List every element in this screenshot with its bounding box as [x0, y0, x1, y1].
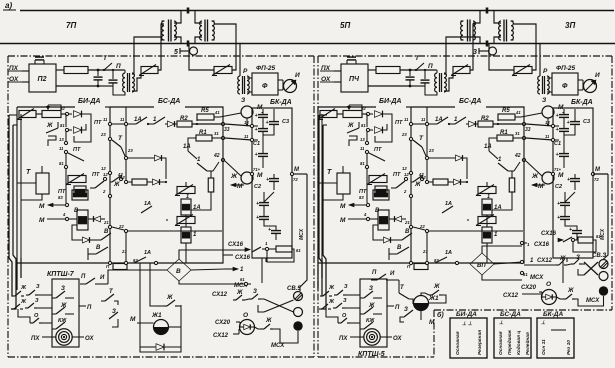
bus vertical 1 — [410, 107, 412, 263]
svg-text:11: 11 — [360, 146, 365, 151]
wire 31 to BK-DA 11 — [225, 138, 252, 140]
svg-text:1А: 1А — [183, 144, 191, 150]
svg-text:ОХ: ОХ — [85, 336, 95, 342]
svg-text:12: 12 — [103, 172, 108, 177]
svg-text:12: 12 — [101, 166, 106, 171]
diode 2 — [69, 129, 72, 131]
svg-text:ПТ: ПТ — [73, 147, 81, 153]
svg-text:33: 33 — [525, 127, 531, 133]
diode — [370, 113, 373, 115]
wire 33 to BK-DA 13 — [526, 124, 553, 126]
terminal wires — [254, 125, 258, 127]
svg-text:11: 11 — [244, 134, 249, 139]
transformer core — [204, 20, 206, 42]
coupling transformer left secondary — [174, 21, 176, 40]
svg-text:72: 72 — [293, 177, 298, 182]
svg-text:П2: П2 — [38, 76, 47, 83]
wire R1 left — [489, 138, 497, 145]
svg-text:Р: Р — [543, 68, 548, 75]
polarity tick top — [187, 8, 190, 14]
wire — [368, 85, 410, 87]
svg-text:Ж: Ж — [414, 182, 421, 188]
svg-text:Основная: Основная — [498, 331, 504, 355]
contact PT mid — [404, 177, 407, 180]
svg-text:ФП-25: ФП-25 — [256, 65, 276, 72]
varistor — [320, 111, 337, 118]
svg-text:Ж: Ж — [113, 182, 120, 188]
capacitor on box — [34, 60, 36, 64]
svg-text:БИ-ДА: БИ-ДА — [379, 98, 401, 105]
svg-text:Ж: Ж — [20, 285, 27, 291]
wire — [467, 219, 469, 221]
loop under resistor right — [573, 240, 596, 252]
capacitor — [97, 70, 99, 76]
relay box PT2 — [72, 190, 88, 200]
svg-text:М: М — [130, 316, 136, 323]
terminal wires — [555, 125, 559, 127]
varistor B — [478, 217, 496, 224]
svg-text:З: З — [36, 284, 40, 290]
svg-text:ПЧ: ПЧ — [349, 76, 360, 83]
svg-text:11: 11 — [421, 117, 426, 122]
coupling transformer left secondary — [473, 21, 475, 40]
svg-text:92: 92 — [361, 106, 366, 111]
svg-text:М: М — [558, 172, 564, 179]
wire — [400, 69, 436, 71]
svg-text:П: П — [81, 274, 86, 280]
varistor A — [177, 187, 195, 194]
svg-text:В: В — [96, 245, 101, 251]
wire — [214, 24, 236, 70]
transformer P core — [439, 73, 441, 92]
svg-text:ОХ: ОХ — [393, 336, 403, 342]
svg-text:БС-ДА: БС-ДА — [158, 98, 180, 105]
svg-text:23: 23 — [401, 132, 407, 137]
wire down to R — [239, 44, 241, 77]
svg-text:33: 33 — [224, 127, 230, 133]
svg-text:Ф: Ф — [262, 83, 268, 90]
BS-DA right edge — [222, 112, 224, 241]
crossing wires right — [584, 262, 598, 275]
bus vertical 1 — [109, 107, 111, 263]
wire 41 to relay Z — [220, 113, 241, 117]
relay box V — [378, 210, 389, 230]
transmitter КПТШ-5 box — [360, 279, 387, 347]
svg-text:Ж: Ж — [230, 173, 238, 180]
relay box 1A — [482, 199, 492, 215]
svg-text:13: 13 — [59, 137, 64, 142]
svg-text:КПТШ-7: КПТШ-7 — [47, 271, 75, 278]
loop under resistor — [267, 249, 294, 262]
left block boundary — [8, 55, 314, 57]
diamond V — [167, 259, 191, 281]
svg-text:12: 12 — [402, 166, 407, 171]
svg-text:М: М — [538, 183, 544, 190]
varistor — [514, 67, 532, 74]
coupling transformer right secondary — [200, 21, 202, 40]
wire — [578, 79, 583, 81]
relay box PT — [375, 186, 387, 196]
crossing wires — [264, 299, 294, 312]
svg-text:1А: 1А — [144, 201, 151, 207]
coupling transformer right winding — [511, 21, 513, 40]
svg-text:СХ20: СХ20 — [215, 320, 231, 326]
wire down to R — [539, 44, 541, 77]
svg-text:81: 81 — [361, 123, 366, 128]
svg-text:СХ16: СХ16 — [235, 255, 251, 261]
svg-text:23: 23 — [428, 148, 434, 153]
wire 22 down — [125, 233, 127, 263]
svg-text:М: М — [429, 319, 435, 326]
power box ПЧ — [334, 70, 341, 72]
svg-text:О: О — [243, 312, 248, 319]
svg-text:Ж: Ж — [328, 299, 335, 305]
svg-text:71+: 71+ — [554, 167, 562, 172]
svg-text:МСХ: МСХ — [586, 298, 600, 304]
wire — [166, 219, 168, 221]
svg-text:З: З — [344, 284, 348, 290]
svg-text:Резервная: Резервная — [477, 330, 483, 355]
svg-text:МСХ: МСХ — [600, 228, 606, 240]
riser stubs bottom right — [317, 263, 319, 290]
bottom wire of BI-DA — [318, 262, 367, 264]
capacitor on box — [346, 60, 348, 64]
wire — [247, 77, 252, 79]
svg-text:М: М — [257, 172, 263, 179]
svg-text:11: 11 — [404, 117, 409, 122]
svg-text:И: И — [390, 271, 395, 277]
svg-text:1А: 1А — [445, 250, 452, 256]
svg-text:М: М — [39, 203, 45, 210]
svg-text:М: М — [39, 217, 45, 224]
svg-text:Передаюж: Передаюж — [507, 330, 513, 355]
svg-text:72: 72 — [594, 177, 599, 182]
svg-text:41: 41 — [515, 110, 521, 115]
svg-text:31: 31 — [515, 131, 520, 136]
svg-text:МСХ: МСХ — [271, 343, 285, 349]
diode — [168, 121, 175, 127]
wire — [547, 77, 552, 79]
bus vertical 2 — [426, 107, 428, 182]
riser wire A — [132, 37, 162, 74]
terminals on bottom edge — [108, 261, 111, 264]
diode — [469, 121, 476, 127]
svg-text:71+: 71+ — [253, 167, 261, 172]
block BK-DA box — [553, 108, 593, 258]
varistor — [19, 111, 36, 118]
svg-text:Ж: Ж — [567, 288, 574, 294]
svg-text:83: 83 — [359, 195, 364, 200]
svg-text:СХ12: СХ12 — [537, 258, 553, 264]
diode mid — [456, 155, 463, 161]
wire 33 to BK-DA 13 — [225, 124, 252, 126]
transformer R primary — [238, 76, 240, 94]
svg-text:БИ-ДА: БИ-ДА — [78, 98, 100, 105]
svg-text:МСХ: МСХ — [530, 275, 544, 281]
inner wire left — [20, 114, 22, 258]
bottom of BS-DA — [66, 241, 223, 263]
svg-text:б): б) — [437, 311, 444, 319]
svg-text:БС-ДА: БС-ДА — [459, 98, 481, 105]
svg-text:42: 42 — [213, 153, 220, 159]
svg-text:3: 3 — [473, 49, 477, 56]
svg-text:Ж: Ж — [347, 123, 354, 129]
BS-DA right edge — [523, 112, 525, 241]
relay box PT — [74, 186, 86, 196]
diode mid — [155, 155, 162, 161]
svg-text:41: 41 — [214, 110, 220, 115]
wire 42 to relay Zh — [526, 161, 542, 176]
relay box 1 — [482, 227, 492, 243]
vertical resistor — [208, 178, 214, 192]
svg-text:21: 21 — [103, 220, 109, 225]
svg-text:СХ16: СХ16 — [541, 231, 557, 237]
motor in box — [56, 329, 72, 345]
resistor low — [433, 179, 448, 185]
svg-text:З: З — [404, 307, 408, 313]
wire terminals column — [65, 114, 67, 127]
svg-text:Ж: Ж — [46, 123, 53, 129]
svg-text:23: 23 — [100, 132, 106, 137]
bus below box — [562, 258, 564, 283]
relay box PT2 — [373, 190, 389, 200]
svg-text:13: 13 — [244, 120, 249, 125]
link wires between transformers — [174, 11, 181, 24]
riser wire B — [132, 73, 141, 91]
svg-text:11: 11 — [59, 146, 64, 151]
svg-text:81: 81 — [360, 161, 365, 166]
svg-text:81: 81 — [60, 123, 65, 128]
svg-text:11: 11 — [545, 134, 550, 139]
svg-text:82: 82 — [434, 258, 439, 263]
resistor — [376, 67, 400, 74]
relay Z bottom stub — [547, 118, 549, 125]
transformer core — [467, 20, 469, 42]
svg-text:СХ16: СХ16 — [228, 242, 244, 248]
wire — [56, 69, 64, 71]
wire riser 2 — [11, 125, 16, 309]
diamond VP — [470, 253, 494, 275]
svg-text:М: М — [340, 217, 346, 224]
transformer P primary — [123, 73, 125, 92]
capacitor 2 — [112, 73, 114, 79]
wire — [88, 69, 124, 71]
svg-text:БК-ДА: БК-ДА — [571, 99, 593, 106]
terminal 31 — [221, 136, 224, 139]
svg-text:ПТ: ПТ — [92, 172, 100, 178]
svg-text:С3: С3 — [583, 119, 590, 125]
capacitor 2 — [424, 73, 426, 79]
transformer R secondary — [247, 76, 249, 94]
transformer core — [168, 20, 170, 42]
svg-text:21: 21 — [404, 220, 410, 225]
wire I to diamond — [108, 270, 167, 284]
wire 41 to relay Z — [521, 113, 542, 117]
svg-text:П: П — [395, 305, 400, 311]
wire riser 1 — [9, 115, 13, 296]
wire terminals column — [366, 114, 368, 127]
varistor — [214, 67, 232, 74]
varistor — [453, 67, 470, 74]
varistor — [141, 67, 158, 74]
svg-text:ПХ: ПХ — [31, 336, 40, 342]
terminals on bottom edge — [409, 261, 412, 264]
BK-DA bottom resistor — [269, 248, 276, 250]
wire — [368, 69, 376, 71]
wire riser 1 — [319, 115, 323, 296]
MSX bus vertical right — [604, 174, 609, 259]
diode lower — [83, 237, 90, 243]
wire stub — [486, 243, 488, 263]
svg-text:81: 81 — [59, 161, 64, 166]
svg-text:И: И — [595, 72, 600, 79]
varistor slanted — [369, 176, 387, 183]
svg-text:ПТ: ПТ — [94, 120, 102, 126]
polarity tick bottom — [486, 41, 489, 47]
svg-text:13: 13 — [360, 137, 365, 142]
svg-text:R5: R5 — [502, 108, 510, 114]
wire 31 to BK-DA 11 — [526, 138, 553, 140]
wire to SV5 filled — [273, 329, 280, 343]
svg-text:В: В — [176, 268, 181, 275]
svg-text:13: 13 — [545, 120, 550, 125]
svg-text:5П: 5П — [340, 21, 350, 30]
wire diamond out — [191, 269, 225, 270]
svg-text:В: В — [104, 229, 109, 235]
svg-text:⊥: ⊥ — [541, 320, 546, 326]
svg-text:В: В — [397, 245, 402, 251]
svg-text:1А: 1А — [445, 201, 452, 207]
svg-text:ПТ: ПТ — [393, 172, 401, 178]
transformer R core — [242, 76, 244, 94]
diode under Zh1 — [156, 344, 164, 351]
riser wire A — [444, 37, 474, 74]
svg-text:92: 92 — [60, 106, 65, 111]
svg-text:СХ12: СХ12 — [212, 292, 228, 298]
svg-text:Ж: Ж — [20, 299, 27, 305]
transformer R core — [542, 76, 544, 94]
block BS-DA box top — [110, 106, 154, 108]
wire — [65, 169, 67, 203]
motor in box — [364, 329, 380, 345]
svg-text:21: 21 — [422, 249, 428, 254]
MSX bus vertical — [300, 174, 307, 291]
polarity tick top — [486, 8, 489, 14]
transformer R primary — [538, 76, 540, 94]
svg-text:С2: С2 — [555, 184, 562, 190]
svg-text:М: М — [340, 203, 346, 210]
diode low — [153, 179, 160, 185]
terminal circle open — [599, 272, 608, 281]
wire 42 to relay Zh — [225, 161, 241, 176]
svg-text:82: 82 — [133, 258, 138, 263]
diode left pointing — [94, 216, 101, 222]
svg-text:С1: С1 — [554, 141, 561, 147]
transmitter КПТШ-7 box — [52, 279, 79, 347]
relay box 1A — [181, 199, 191, 215]
svg-text:Р: Р — [243, 68, 248, 75]
svg-text:23: 23 — [127, 148, 133, 153]
wire riser stub — [319, 114, 327, 116]
terminal circle filled — [599, 286, 608, 295]
svg-text:Рез 10: Рез 10 — [566, 340, 572, 355]
svg-text:КПТШ-5: КПТШ-5 — [358, 351, 385, 358]
vertical resistor — [509, 178, 515, 192]
wire — [112, 123, 124, 125]
track rail line upper — [20, 10, 614, 12]
svg-text:Ж1: Ж1 — [428, 295, 439, 302]
coupling transformer left winding — [461, 21, 463, 40]
wire from BS-DA bottom — [139, 263, 141, 323]
svg-text:Ф: Ф — [562, 83, 568, 90]
svg-text:1А: 1А — [435, 117, 443, 123]
svg-text:11: 11 — [120, 117, 125, 122]
diode lower — [384, 237, 391, 243]
svg-text:Кодовая ц: Кодовая ц — [516, 331, 522, 355]
wire varistor to transformer — [158, 24, 164, 70]
svg-text:Ж: Ж — [328, 285, 335, 291]
transformer core — [503, 20, 505, 42]
svg-text:1А: 1А — [144, 250, 151, 256]
svg-text:П: П — [116, 63, 121, 70]
svg-text:⊥: ⊥ — [499, 320, 504, 326]
wire loop diodes — [375, 114, 392, 142]
bus vertical 2 — [125, 107, 127, 182]
bottom wire of BI-DA — [17, 262, 66, 264]
diode 2 — [370, 129, 373, 131]
coupling transformer right secondary — [499, 21, 501, 40]
varistor A — [478, 187, 496, 194]
svg-text:З: З — [253, 289, 257, 295]
svg-text:БС-ДА: БС-ДА — [500, 311, 521, 318]
terminal circle hatched — [294, 292, 303, 301]
contact PT mid — [103, 177, 106, 180]
bottom of BS-DA — [367, 241, 524, 263]
svg-text:О: О — [546, 281, 551, 288]
svg-text:Т: Т — [327, 169, 332, 176]
svg-text:П: П — [372, 270, 377, 276]
svg-text:БИ-ДА: БИ-ДА — [456, 311, 477, 318]
svg-text:ВП: ВП — [477, 263, 486, 269]
diamond wires right — [494, 262, 522, 264]
wire loop diodes — [74, 114, 91, 142]
wire 22 down — [426, 233, 428, 263]
svg-text:61: 61 — [296, 248, 301, 253]
wire from track transformer — [189, 44, 214, 71]
svg-text:СХ12: СХ12 — [213, 333, 229, 339]
wire varistor to transformer — [470, 24, 476, 70]
riser wire B — [444, 73, 453, 91]
svg-text:И: И — [295, 72, 300, 79]
svg-text:1А: 1А — [484, 144, 492, 150]
svg-text:З: З — [343, 298, 347, 304]
wire riser stub — [9, 114, 17, 116]
block BK-DA box — [252, 108, 292, 258]
svg-text:Ж: Ж — [433, 284, 440, 290]
transformer P primary — [435, 73, 437, 92]
svg-text:С3: С3 — [282, 119, 289, 125]
svg-text:5: 5 — [174, 49, 178, 56]
relay box V — [77, 210, 88, 230]
resistor low — [132, 179, 147, 185]
transformer R secondary — [547, 76, 549, 94]
wire caps top — [261, 112, 263, 113]
potentiometer — [343, 111, 362, 118]
svg-text:П: П — [428, 63, 433, 70]
svg-text:Осн 11: Осн 11 — [541, 339, 547, 355]
coupling transformer left winding — [162, 21, 164, 40]
svg-text:3П: 3П — [565, 21, 575, 30]
